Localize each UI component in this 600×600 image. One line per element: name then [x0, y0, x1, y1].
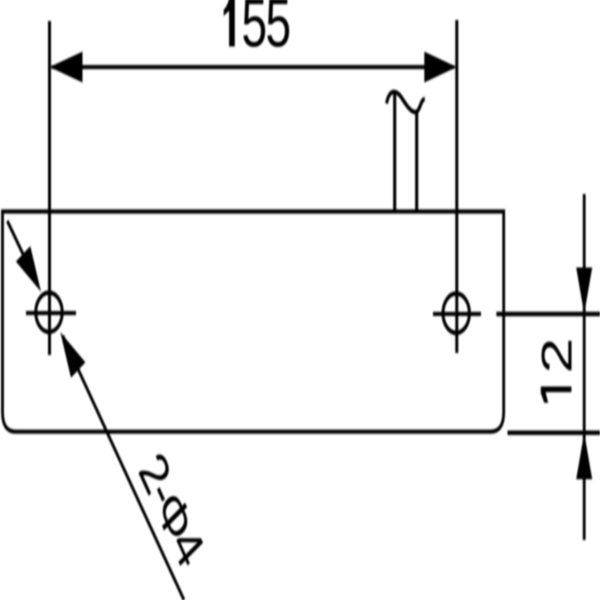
wire lead right line [415, 111, 418, 212]
arrowhead 12 down [576, 267, 592, 314]
dimension text 155 [224, 0, 235, 47]
wire break squiggle [387, 92, 425, 112]
arrowhead 155 left [50, 52, 83, 83]
wire lead left line [393, 92, 396, 211]
svg-text:55: 55 [242, 0, 290, 62]
hole left crosshair horizontal [26, 312, 76, 315]
digit 1 of 12 (drawn) [541, 387, 572, 403]
leader line lower segment [63, 336, 184, 600]
arrowhead 12 up [576, 433, 592, 480]
dimension line 12 vertical [583, 194, 586, 540]
dimension line 155 [52, 66, 454, 69]
leader arrowhead upper (points at hole from upper left) [16, 246, 41, 292]
extension line lower (12 dim, bottom edge level) [508, 431, 600, 434]
hole right circle [443, 294, 469, 333]
leader arrowhead lower (points at hole from lower right) [60, 332, 85, 378]
hole left circle [36, 293, 62, 332]
svg-text:2: 2 [532, 338, 581, 374]
extension line right (155 dim / right hole centerline) [455, 20, 458, 353]
part outline rectangle [3, 212, 504, 432]
extension line left (155 dim / left hole centerline) [48, 21, 51, 355]
leader line upper segment [7, 221, 38, 286]
arrowhead 155 right [424, 52, 457, 83]
hole right crosshair horizontal [433, 313, 481, 316]
extension line upper (12 dim, hole centerline level) [496, 312, 600, 315]
